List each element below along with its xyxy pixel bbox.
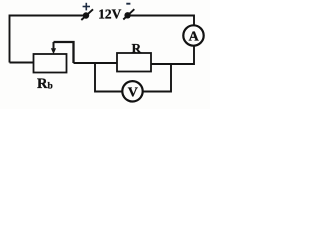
battery negative terminal dot bbox=[124, 12, 130, 18]
minus sign bbox=[126, 3, 130, 5]
voltmeter U-V circle bbox=[122, 81, 142, 101]
ammeter U-A circle bbox=[183, 25, 203, 45]
wire voltmeter right to T junction on ammeter wire bbox=[143, 64, 171, 92]
wire resistor R right terminal to ammeter branch corner bbox=[151, 46, 194, 64]
rheostat slider arrow bbox=[51, 42, 56, 54]
wire top-left from battery + terminal to left side bbox=[10, 16, 87, 63]
battery positive terminal dot bbox=[83, 12, 89, 18]
battery negative terminal clip stroke bbox=[123, 9, 134, 19]
rheostat Rb body bbox=[34, 54, 67, 73]
node junction T: drop to voltmeter branch left bbox=[95, 63, 122, 92]
wire from slider corner to resistor R left terminal bbox=[74, 62, 118, 64]
svg-text:R: R bbox=[132, 40, 142, 55]
svg-text:Rb: Rb bbox=[37, 76, 53, 92]
wire ammeter top to battery - terminal bbox=[128, 16, 195, 26]
svg-text:V: V bbox=[128, 85, 138, 100]
battery positive terminal clip stroke bbox=[81, 9, 93, 20]
plus sign bbox=[83, 3, 90, 11]
svg-text:A: A bbox=[189, 30, 200, 45]
wire from slider up-right-down to node between Rb and R bbox=[54, 42, 74, 63]
resistor R body bbox=[117, 53, 151, 72]
wire left to rheostat Rb left terminal bbox=[10, 62, 34, 64]
svg-text:12V: 12V bbox=[98, 6, 121, 21]
